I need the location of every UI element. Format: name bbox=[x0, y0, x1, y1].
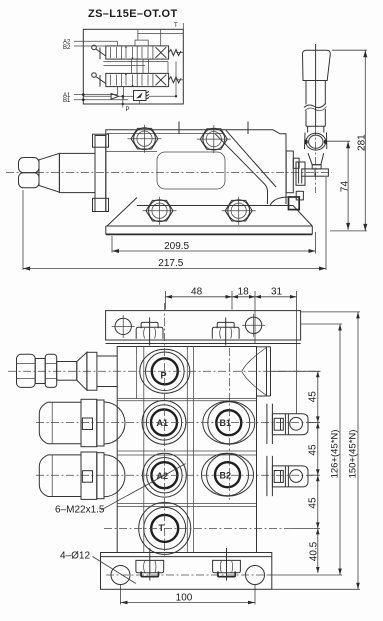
svg-text:45: 45 bbox=[308, 391, 319, 403]
svg-text:T: T bbox=[174, 23, 178, 29]
svg-text:126+(45*N): 126+(45*N) bbox=[330, 430, 341, 479]
svg-text:45: 45 bbox=[308, 444, 319, 456]
svg-text:45: 45 bbox=[308, 497, 319, 509]
svg-text:31: 31 bbox=[271, 287, 283, 298]
svg-text:40.5: 40.5 bbox=[309, 541, 320, 561]
svg-text:150+(45*N): 150+(45*N) bbox=[348, 430, 359, 479]
svg-text:ZS–L15E–OT.OT: ZS–L15E–OT.OT bbox=[88, 8, 178, 20]
svg-text:217.5: 217.5 bbox=[158, 258, 183, 269]
svg-text:T: T bbox=[159, 523, 165, 533]
svg-text:100: 100 bbox=[176, 593, 193, 604]
svg-text:P: P bbox=[161, 371, 167, 381]
svg-text:18: 18 bbox=[238, 287, 250, 298]
svg-text:281: 281 bbox=[357, 134, 368, 151]
svg-text:P: P bbox=[126, 107, 130, 113]
svg-text:4–Ø12: 4–Ø12 bbox=[60, 551, 90, 562]
svg-text:B1: B1 bbox=[63, 98, 71, 104]
svg-text:B2: B2 bbox=[63, 45, 71, 51]
svg-text:74: 74 bbox=[339, 181, 350, 193]
svg-text:48: 48 bbox=[191, 287, 203, 298]
svg-text:209.5: 209.5 bbox=[164, 241, 189, 252]
svg-text:A1: A1 bbox=[157, 418, 169, 428]
svg-text:6–M22x1.5: 6–M22x1.5 bbox=[55, 505, 105, 516]
